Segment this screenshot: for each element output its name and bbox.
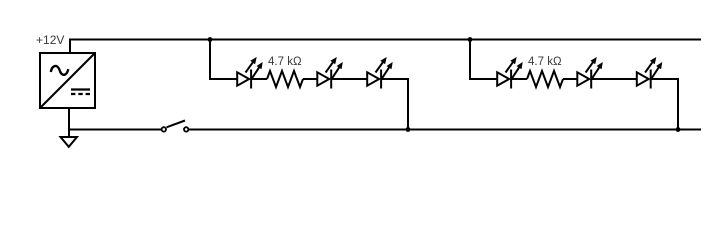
svg-text:4.7 kΩ: 4.7 kΩ	[528, 56, 562, 68]
wire D6 to bottom rail	[651, 79, 678, 130]
LED D2	[317, 57, 343, 89]
wire bottom rail right segment (switch to end)	[189, 129, 701, 131]
svg-text:4.7 kΩ: 4.7 kΩ	[268, 56, 302, 68]
node junction branch 1 top	[208, 37, 213, 42]
node junction branch 2 top	[468, 37, 473, 42]
wire D3 to bottom rail	[381, 79, 408, 130]
LED D6	[637, 57, 663, 89]
switch S1 left contact	[162, 127, 166, 131]
switch S1 right contact	[184, 127, 188, 131]
power supply PS1 DC dashed line	[71, 93, 90, 95]
wire top rail +12V net	[69, 39, 701, 41]
wire R2 to D5	[563, 78, 577, 80]
wire D5 to D6	[591, 78, 637, 80]
wire corner drop to supply	[69, 39, 71, 54]
power supply PS1 AC sine symbol	[51, 66, 68, 75]
ground symbol	[61, 137, 78, 147]
node junction branch 2 bottom	[676, 127, 681, 132]
LED D5	[577, 57, 603, 89]
node junction branch 1 bottom	[406, 127, 411, 132]
resistor R1	[267, 71, 303, 87]
resistor R2	[527, 71, 563, 87]
power supply PS1 DC solid line	[71, 88, 90, 90]
power supply PS1 diagonal	[40, 53, 95, 108]
wire branch 2 feed	[470, 40, 497, 80]
LED D1	[237, 57, 263, 89]
LED D4	[497, 57, 523, 89]
svg-text:+12V: +12V	[36, 33, 64, 47]
wire D2 to D3	[331, 78, 367, 80]
wire R1 to D2	[303, 78, 317, 80]
wire supply bottom to ground	[68, 108, 70, 137]
LED D3	[367, 57, 393, 89]
wire D4 to R2	[511, 78, 527, 80]
switch S1 lever	[167, 121, 186, 128]
power supply PS1 box (AC-DC converter)	[40, 53, 95, 108]
wire bottom rail left segment (ground to switch)	[68, 129, 161, 131]
wire branch 1 feed	[210, 40, 237, 80]
wire D1 to R1	[251, 78, 267, 80]
